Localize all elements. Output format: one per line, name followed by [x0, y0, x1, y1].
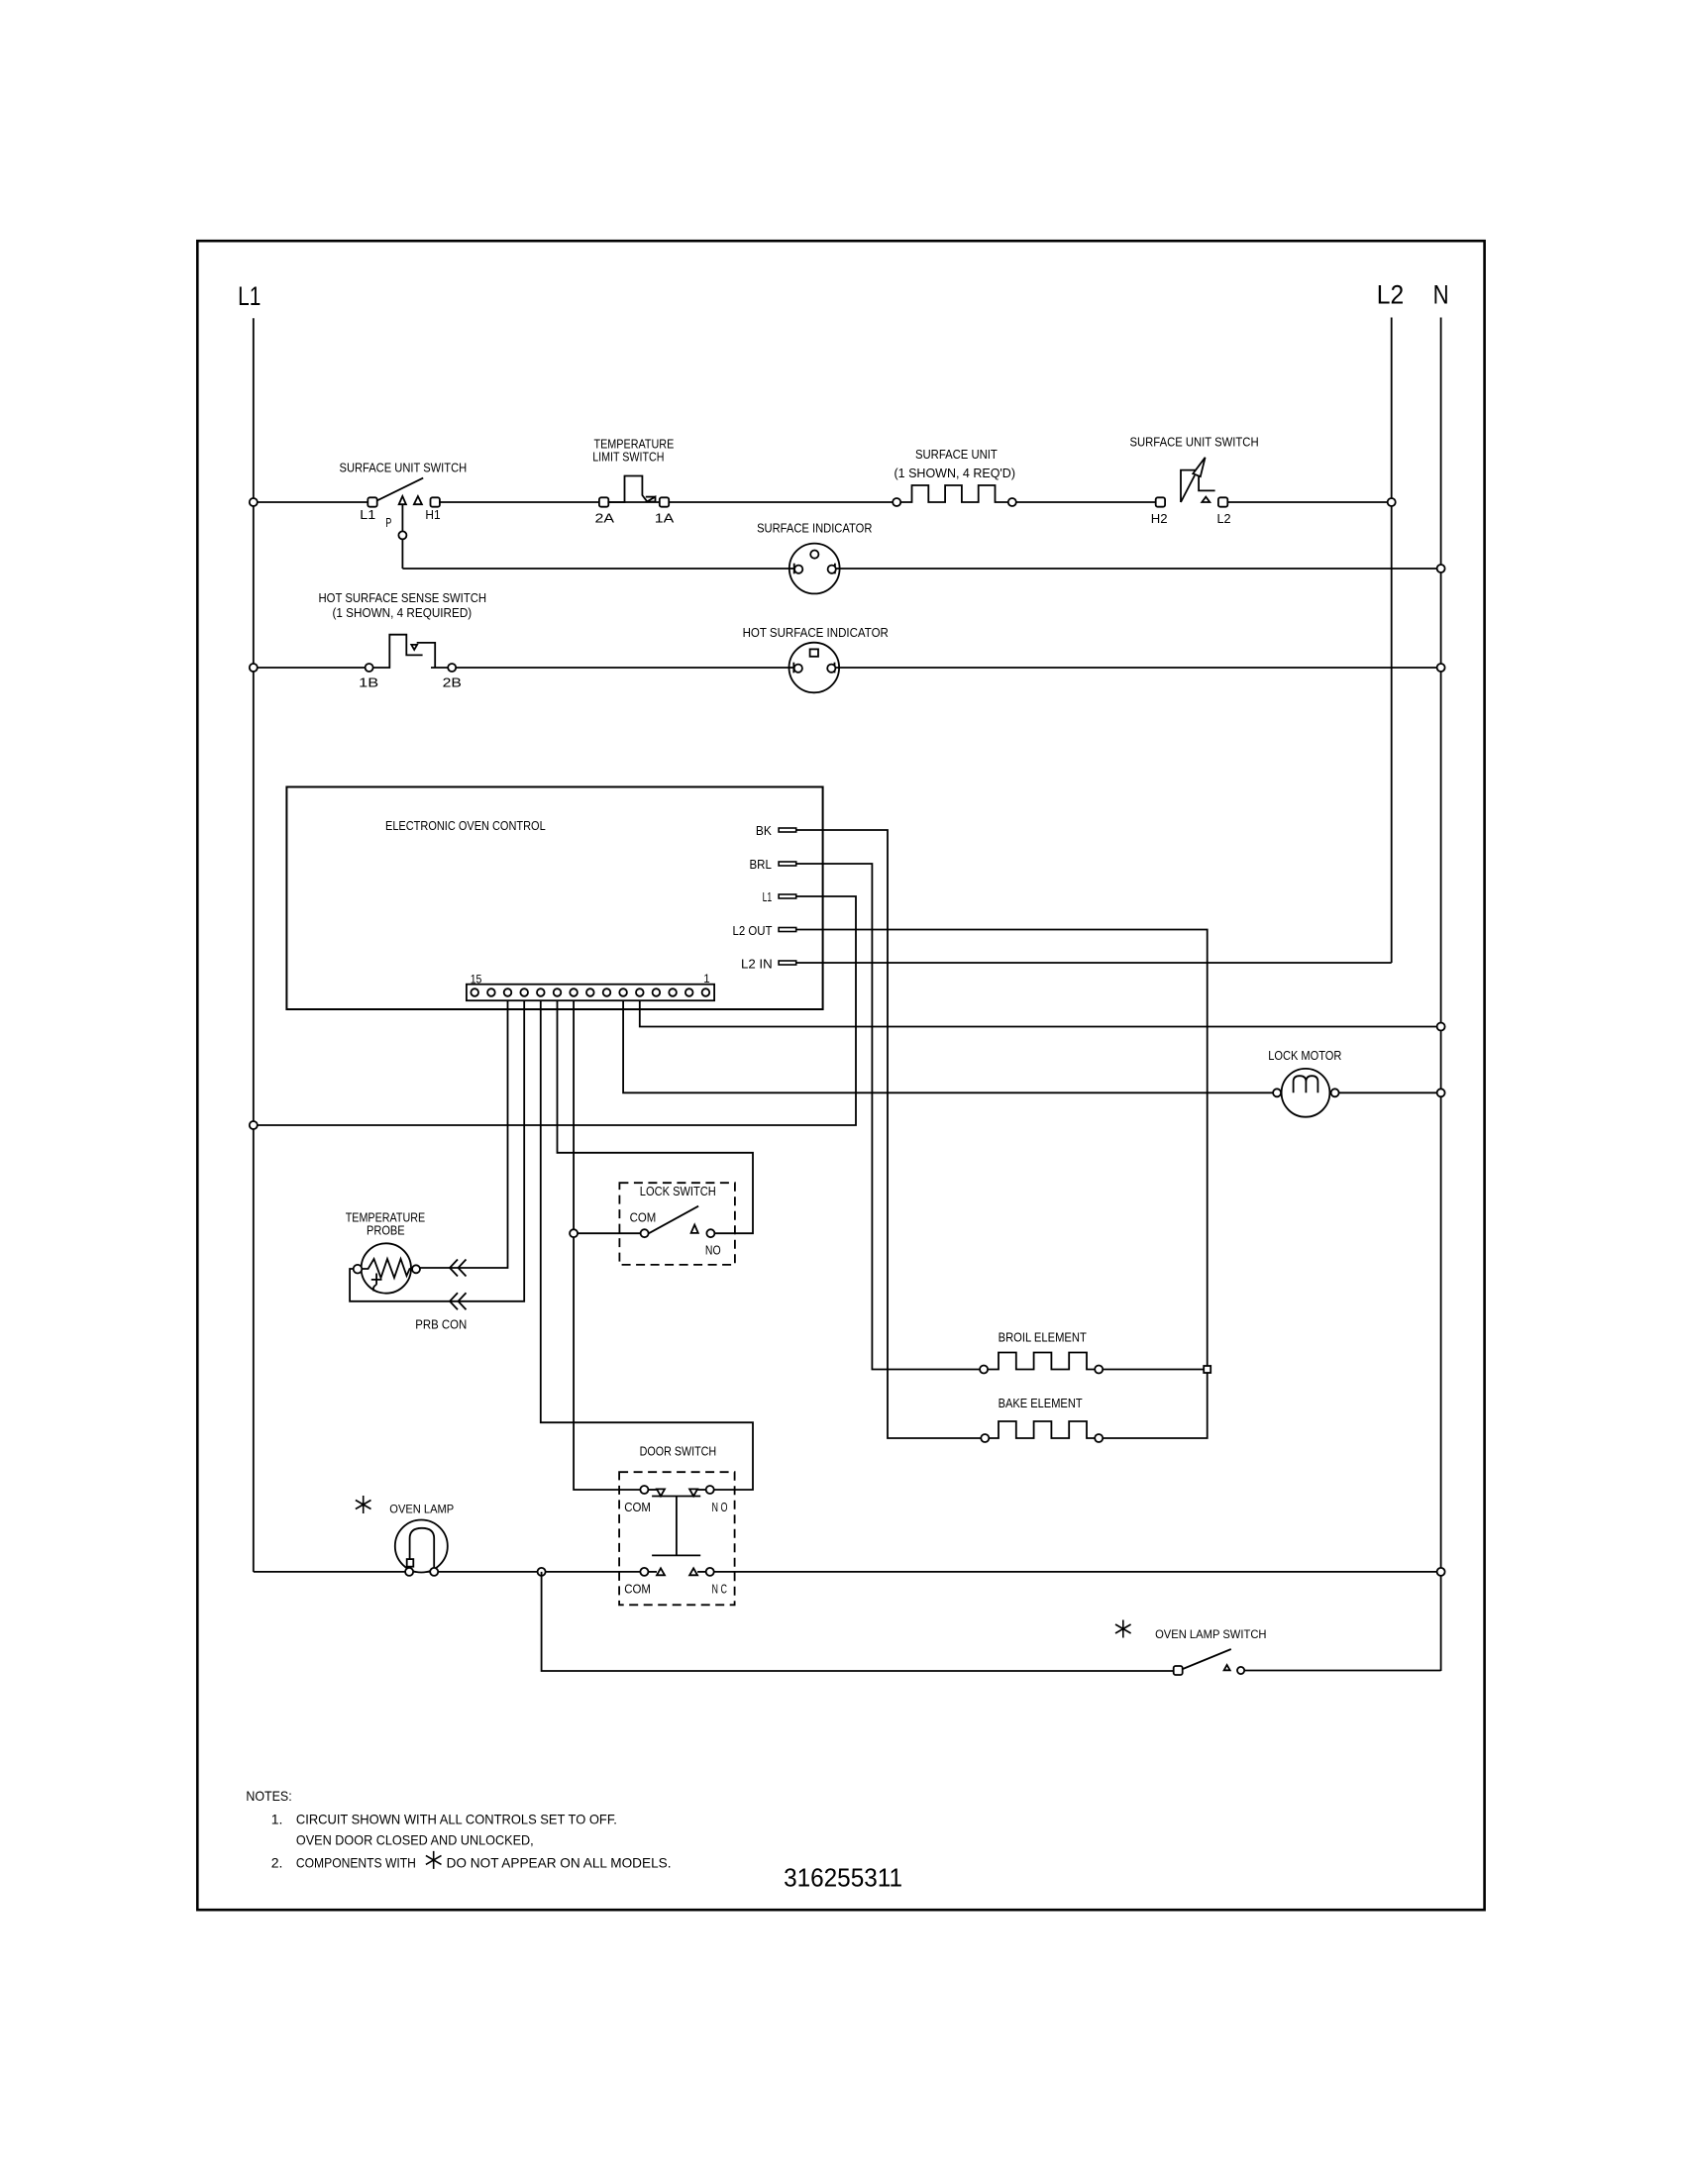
svg-text:L1: L1	[763, 889, 773, 904]
svg-text:15: 15	[471, 975, 482, 987]
svg-text:COMPONENTS WITH: COMPONENTS WITH	[296, 1854, 416, 1870]
svg-text:2A: 2A	[595, 511, 615, 526]
svg-text:BRL: BRL	[750, 857, 772, 872]
svg-text:ELECTRONIC OVEN CONTROL: ELECTRONIC OVEN CONTROL	[385, 818, 546, 833]
svg-text:1A: 1A	[655, 511, 675, 526]
svg-text:1.: 1.	[271, 1811, 283, 1826]
svg-text:BROIL ELEMENT: BROIL ELEMENT	[999, 1329, 1087, 1344]
svg-text:N O: N O	[712, 1500, 728, 1514]
svg-text:P: P	[385, 515, 391, 530]
svg-text:N: N	[1433, 280, 1449, 310]
svg-text:DO NOT APPEAR ON ALL MODELS.: DO NOT APPEAR ON ALL MODELS.	[447, 1854, 672, 1870]
svg-text:N C: N C	[712, 1581, 727, 1596]
svg-text:CIRCUIT SHOWN WITH ALL CONTROL: CIRCUIT SHOWN WITH ALL CONTROLS SET TO O…	[296, 1811, 617, 1826]
svg-text:COM: COM	[630, 1209, 657, 1224]
svg-text:OVEN LAMP SWITCH: OVEN LAMP SWITCH	[1155, 1627, 1266, 1641]
svg-text:L2 IN: L2 IN	[741, 956, 773, 971]
svg-text:(1 SHOWN, 4 REQUIRED): (1 SHOWN, 4 REQUIRED)	[333, 605, 473, 620]
svg-text:NOTES:: NOTES:	[246, 1788, 291, 1804]
svg-text:H1: H1	[425, 507, 440, 522]
svg-text:BK: BK	[756, 823, 772, 838]
svg-text:SURFACE INDICATOR: SURFACE INDICATOR	[757, 520, 872, 535]
svg-text:PRB CON: PRB CON	[415, 1316, 467, 1331]
svg-text:L1: L1	[238, 281, 261, 311]
svg-text:SURFACE UNIT: SURFACE UNIT	[915, 447, 998, 462]
svg-text:OVEN DOOR CLOSED AND UNLOCKED,: OVEN DOOR CLOSED AND UNLOCKED,	[296, 1831, 534, 1847]
svg-text:SURFACE UNIT SWITCH: SURFACE UNIT SWITCH	[1130, 435, 1259, 450]
svg-text:L2: L2	[1217, 511, 1231, 526]
svg-text:OVEN LAMP: OVEN LAMP	[389, 1502, 454, 1515]
svg-text:316255311: 316255311	[784, 1862, 902, 1892]
svg-text:1: 1	[703, 974, 709, 986]
svg-text:2.: 2.	[271, 1854, 283, 1870]
svg-text:LOCK MOTOR: LOCK MOTOR	[1268, 1048, 1341, 1063]
svg-text:PROBE: PROBE	[367, 1223, 405, 1238]
svg-text:DOOR SWITCH: DOOR SWITCH	[640, 1444, 717, 1459]
svg-text:NO: NO	[705, 1243, 721, 1258]
svg-text:SURFACE UNIT SWITCH: SURFACE UNIT SWITCH	[340, 460, 468, 474]
svg-text:L2: L2	[1377, 280, 1404, 310]
svg-text:COM: COM	[624, 1500, 651, 1514]
svg-text:(1 SHOWN, 4 REQ'D): (1 SHOWN, 4 REQ'D)	[895, 466, 1016, 480]
svg-text:L2 OUT: L2 OUT	[733, 923, 773, 938]
svg-text:LIMIT SWITCH: LIMIT SWITCH	[592, 450, 664, 465]
svg-text:L1: L1	[360, 507, 375, 522]
svg-text:2B: 2B	[443, 675, 462, 689]
svg-text:COM: COM	[624, 1581, 651, 1596]
svg-text:HOT SURFACE INDICATOR: HOT SURFACE INDICATOR	[743, 625, 889, 640]
svg-text:H2: H2	[1151, 511, 1168, 526]
svg-text:1B: 1B	[359, 675, 378, 689]
svg-text:HOT SURFACE SENSE SWITCH: HOT SURFACE SENSE SWITCH	[319, 590, 487, 605]
svg-text:LOCK SWITCH: LOCK SWITCH	[640, 1184, 716, 1198]
svg-text:BAKE ELEMENT: BAKE ELEMENT	[999, 1396, 1083, 1410]
